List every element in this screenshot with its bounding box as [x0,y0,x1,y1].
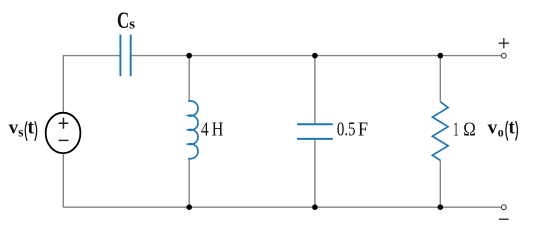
svg-text:F: F [358,119,368,141]
svg-text:t: t [28,118,35,139]
output terminal top open circle [501,53,506,58]
inductor L 4H coil [188,101,198,159]
svg-text:C: C [117,8,129,33]
plus sign at output [499,38,509,48]
resistor R 1ohm zigzag [432,102,448,161]
wire inductor branch top [188,56,190,102]
wire resistor branch top [439,56,441,102]
junction dot top resistor [438,53,444,59]
minus sign at output [499,218,509,220]
output terminal bottom open circle [501,205,506,210]
voltage source vs circle [46,113,81,154]
junction dot top capacitor [312,53,318,59]
wire top rail right of Cs [131,55,502,57]
svg-text:s: s [129,17,135,33]
wire inductor branch bottom [188,158,190,207]
wire capacitor branch top [314,56,316,124]
minus sign inside source [59,139,69,141]
svg-text:s: s [18,125,24,140]
svg-text:t: t [509,118,516,139]
junction dot bottom inductor [186,204,192,210]
plus sign inside source [59,118,69,129]
svg-text:v: v [9,118,19,139]
svg-text:0.5: 0.5 [337,119,356,141]
svg-text:o: o [498,125,504,140]
wire top rail left of Cs [63,56,120,112]
junction dot top inductor [186,53,192,59]
capacitor Cs plates [120,35,130,77]
wire left vertical below source [62,154,64,207]
wire bottom rail [63,206,501,208]
capacitor 0.5F plates [297,124,333,139]
svg-text:v: v [488,118,498,139]
junction dot bottom capacitor [312,204,318,210]
wire resistor branch bottom [439,160,441,207]
svg-text:4: 4 [201,118,209,140]
wire capacitor branch bottom [314,140,316,208]
svg-text:Ω: Ω [463,119,476,141]
svg-text:H: H [212,118,224,140]
svg-text:1: 1 [453,119,458,141]
junction dot bottom resistor [438,204,444,210]
